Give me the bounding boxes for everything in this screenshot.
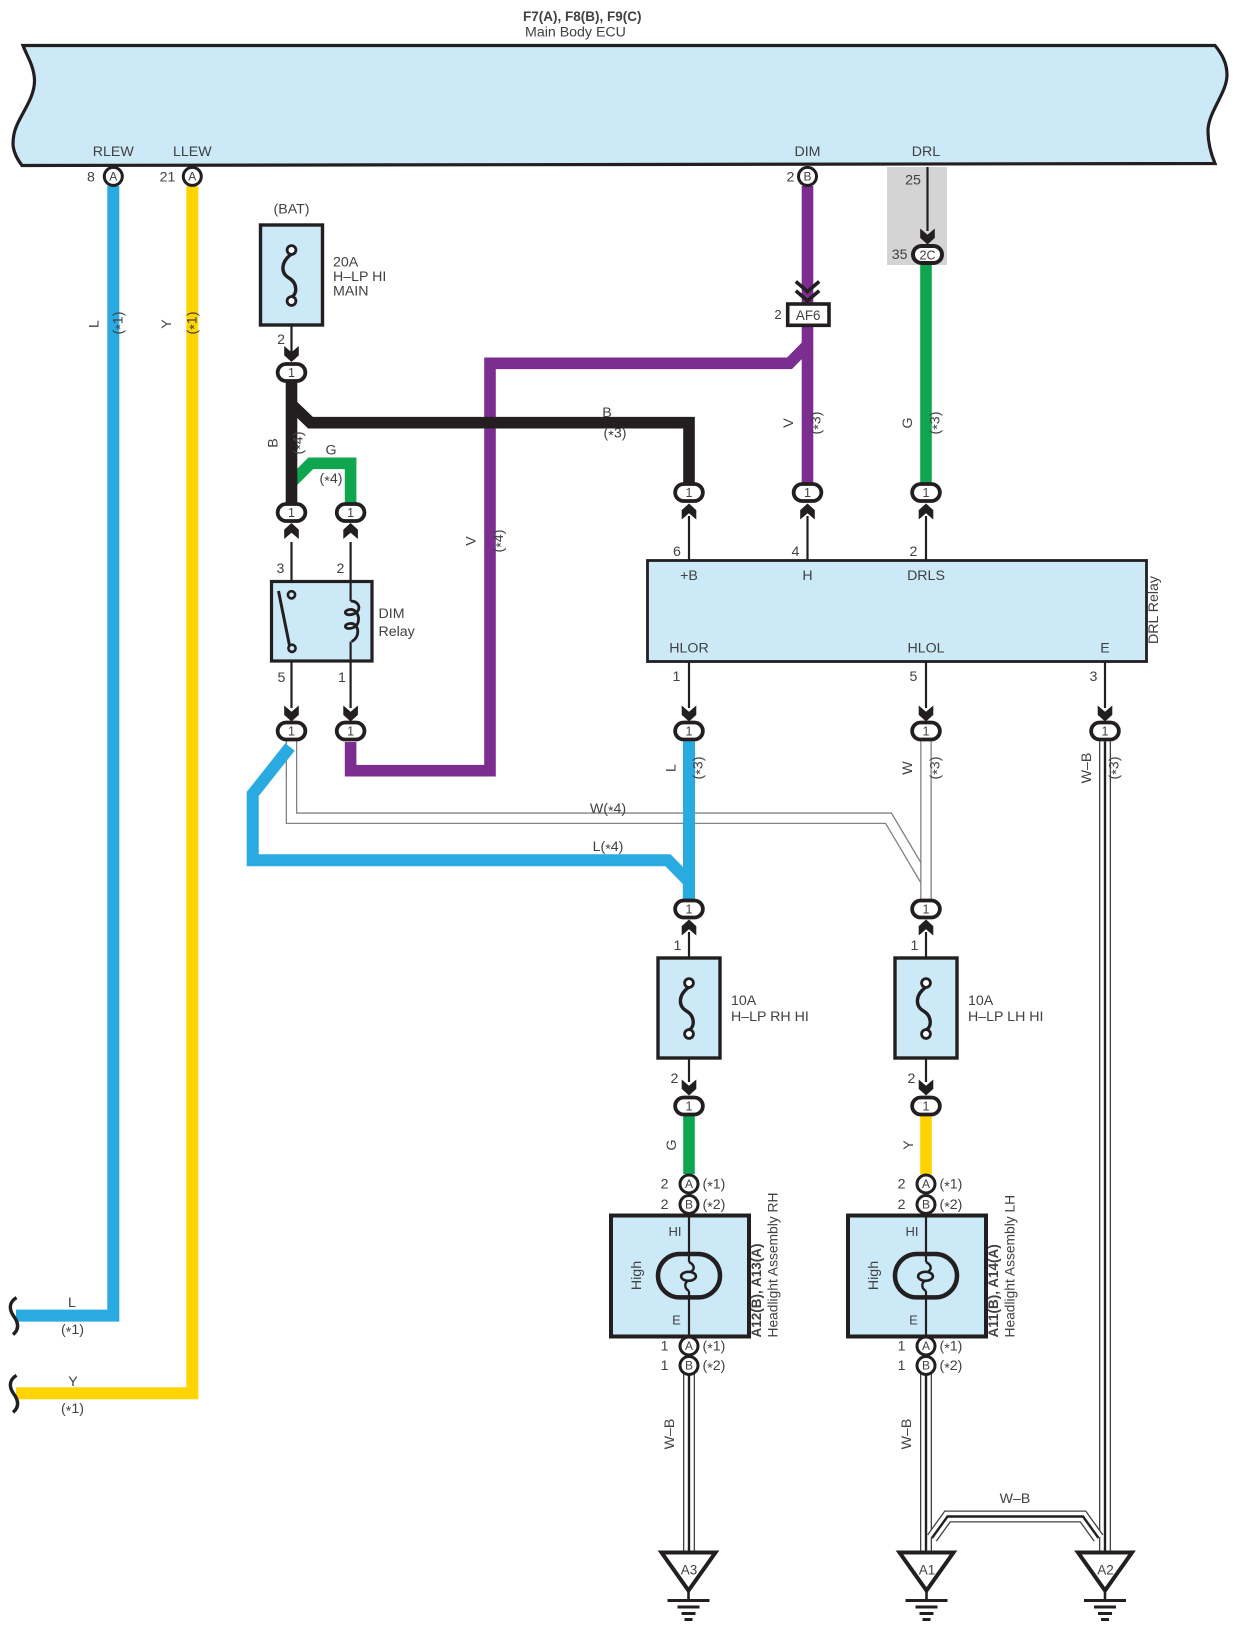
svg-text:B: B: [803, 169, 811, 183]
svg-text:(*2): (*2): [940, 1358, 963, 1377]
svg-text:2: 2: [661, 1197, 669, 1213]
svg-text:8: 8: [87, 170, 95, 186]
svg-text:2: 2: [898, 1197, 906, 1213]
svg-text:1: 1: [1102, 724, 1109, 738]
svg-text:G: G: [900, 417, 916, 428]
svg-text:2: 2: [908, 1071, 916, 1087]
svg-text:L: L: [68, 1295, 76, 1311]
svg-text:MAIN: MAIN: [333, 284, 368, 300]
svg-text:2C: 2C: [920, 249, 936, 263]
svg-text:B: B: [685, 1198, 693, 1212]
svg-text:HI: HI: [906, 1224, 919, 1239]
svg-text:2: 2: [898, 1177, 906, 1193]
svg-text:(*1): (*1): [61, 1322, 84, 1341]
svg-text:4: 4: [792, 544, 800, 560]
svg-text:W(*4): W(*4): [590, 801, 626, 820]
svg-text:1: 1: [347, 506, 354, 520]
svg-text:A: A: [922, 1339, 930, 1353]
svg-text:G: G: [325, 443, 336, 459]
svg-text:Y: Y: [68, 1374, 78, 1390]
svg-text:2: 2: [787, 170, 795, 186]
svg-text:1: 1: [661, 1358, 669, 1374]
svg-text:LLEW: LLEW: [173, 144, 212, 160]
svg-text:1: 1: [661, 1339, 669, 1355]
svg-text:B: B: [602, 405, 611, 421]
svg-text:21: 21: [160, 170, 176, 186]
svg-text:Relay: Relay: [379, 624, 416, 640]
svg-text:35: 35: [892, 247, 908, 263]
svg-text:V: V: [781, 418, 797, 428]
svg-text:V: V: [464, 536, 480, 546]
svg-text:H–LP LH HI: H–LP LH HI: [968, 1009, 1043, 1025]
svg-text:2: 2: [277, 332, 285, 348]
svg-text:10A: 10A: [731, 993, 757, 1009]
svg-text:6: 6: [673, 544, 681, 560]
svg-text:H–LP RH HI: H–LP RH HI: [731, 1009, 809, 1025]
svg-text:(BAT): (BAT): [274, 202, 310, 218]
svg-text:RLEW: RLEW: [93, 144, 135, 160]
svg-text:(*1): (*1): [940, 1339, 963, 1358]
svg-text:1: 1: [674, 938, 682, 954]
svg-text:L(*4): L(*4): [593, 839, 624, 858]
svg-text:(*4): (*4): [291, 432, 310, 455]
svg-text:DRL: DRL: [912, 144, 940, 160]
svg-text:2: 2: [671, 1071, 679, 1087]
svg-text:(*3): (*3): [927, 757, 946, 780]
svg-text:1: 1: [911, 938, 919, 954]
svg-text:B: B: [922, 1359, 930, 1373]
svg-text:(*2): (*2): [703, 1197, 726, 1216]
svg-text:3: 3: [1090, 669, 1098, 685]
svg-text:1: 1: [686, 1099, 693, 1113]
svg-text:L: L: [87, 320, 103, 328]
svg-text:Headlight Assembly LH: Headlight Assembly LH: [1002, 1195, 1017, 1338]
svg-text:1: 1: [804, 486, 811, 500]
svg-text:B: B: [685, 1359, 693, 1373]
svg-text:(*1): (*1): [185, 312, 204, 335]
svg-text:(*1): (*1): [703, 1339, 726, 1358]
svg-text:10A: 10A: [968, 993, 994, 1009]
svg-text:1: 1: [288, 506, 295, 520]
svg-text:W–B: W–B: [899, 1419, 915, 1450]
svg-text:5: 5: [910, 669, 918, 685]
svg-text:(*2): (*2): [703, 1358, 726, 1377]
svg-text:L: L: [664, 764, 680, 772]
svg-text:W–B: W–B: [1079, 753, 1095, 784]
svg-text:W–B: W–B: [1000, 1491, 1031, 1507]
svg-text:A3: A3: [681, 1563, 698, 1578]
svg-text:(*1): (*1): [940, 1177, 963, 1196]
svg-text:HLOR: HLOR: [669, 641, 708, 657]
svg-text:1: 1: [898, 1358, 906, 1374]
svg-text:5: 5: [278, 670, 286, 686]
svg-text:1: 1: [288, 724, 295, 738]
svg-text:A2: A2: [1097, 1563, 1114, 1578]
svg-text:A12(B), A13(A): A12(B), A13(A): [749, 1243, 764, 1337]
svg-text:Y: Y: [901, 1140, 917, 1150]
svg-text:E: E: [909, 1313, 918, 1328]
svg-text:H: H: [802, 568, 812, 584]
svg-text:F7(A), F8(B), F9(C): F7(A), F8(B), F9(C): [523, 9, 642, 24]
svg-text:Main Body ECU: Main Body ECU: [525, 25, 626, 41]
svg-text:A: A: [685, 1177, 693, 1191]
svg-text:(*1): (*1): [61, 1401, 84, 1420]
svg-text:(*4): (*4): [320, 471, 343, 490]
svg-text:(*3): (*3): [604, 426, 627, 445]
svg-text:Headlight Assembly RH: Headlight Assembly RH: [765, 1193, 780, 1338]
svg-text:1: 1: [923, 1099, 930, 1113]
svg-text:DIM: DIM: [794, 144, 820, 160]
svg-text:+B: +B: [680, 568, 698, 584]
svg-text:1: 1: [686, 486, 693, 500]
svg-text:Y: Y: [159, 319, 175, 329]
svg-text:(*1): (*1): [111, 312, 130, 335]
svg-text:A11(B), A14(A): A11(B), A14(A): [986, 1244, 1001, 1337]
svg-text:A: A: [685, 1339, 693, 1353]
svg-text:1: 1: [923, 902, 930, 916]
svg-text:2: 2: [910, 544, 918, 560]
svg-text:3: 3: [277, 561, 285, 577]
svg-text:(*3): (*3): [691, 757, 710, 780]
svg-text:2: 2: [774, 307, 781, 322]
svg-text:2: 2: [337, 561, 345, 577]
svg-text:A1: A1: [919, 1563, 936, 1578]
svg-text:1: 1: [338, 670, 346, 686]
svg-text:(*3): (*3): [928, 412, 947, 435]
svg-text:AF6: AF6: [796, 308, 821, 323]
svg-text:1: 1: [673, 669, 681, 685]
svg-text:High: High: [866, 1261, 882, 1290]
svg-text:B: B: [922, 1198, 930, 1212]
svg-text:B: B: [266, 438, 282, 447]
svg-text:1: 1: [288, 366, 295, 380]
svg-text:1: 1: [923, 486, 930, 500]
svg-text:DRL Relay: DRL Relay: [1146, 575, 1162, 644]
svg-text:E: E: [672, 1313, 681, 1328]
svg-text:A: A: [188, 169, 196, 183]
svg-text:G: G: [664, 1139, 680, 1150]
svg-text:DRLS: DRLS: [907, 568, 945, 584]
svg-text:25: 25: [905, 173, 921, 189]
svg-text:E: E: [1100, 641, 1109, 657]
svg-text:HI: HI: [669, 1224, 682, 1239]
svg-text:(*4): (*4): [491, 530, 510, 553]
svg-text:1: 1: [347, 724, 354, 738]
svg-text:High: High: [629, 1261, 645, 1290]
svg-text:(*3): (*3): [1106, 757, 1125, 780]
svg-text:A: A: [922, 1177, 930, 1191]
svg-text:1: 1: [686, 724, 693, 738]
svg-text:(*3): (*3): [809, 412, 828, 435]
svg-text:(*1): (*1): [703, 1177, 726, 1196]
svg-text:HLOL: HLOL: [907, 641, 944, 657]
svg-text:1: 1: [686, 902, 693, 916]
svg-text:(*2): (*2): [940, 1197, 963, 1216]
svg-text:DIM: DIM: [379, 606, 405, 622]
svg-text:W: W: [900, 761, 916, 775]
svg-text:1: 1: [923, 724, 930, 738]
svg-text:1: 1: [898, 1339, 906, 1355]
svg-text:W–B: W–B: [662, 1419, 678, 1450]
svg-text:A: A: [109, 169, 117, 183]
svg-text:2: 2: [661, 1177, 669, 1193]
